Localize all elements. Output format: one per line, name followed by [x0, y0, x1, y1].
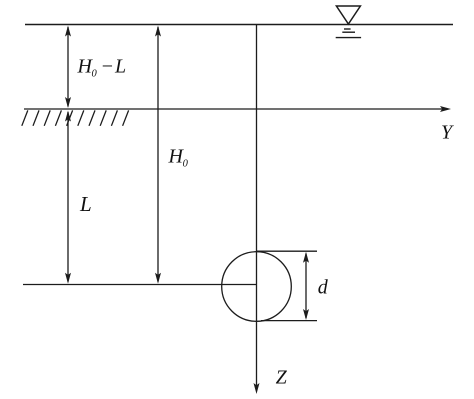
svg-text:0: 0	[183, 158, 189, 169]
svg-text:−: −	[101, 56, 115, 78]
svg-text:Y: Y	[441, 122, 454, 144]
svg-text:L: L	[79, 192, 92, 216]
svg-text:Z: Z	[276, 366, 288, 388]
svg-text:d: d	[318, 277, 329, 299]
svg-text:0: 0	[92, 69, 98, 80]
svg-text:L: L	[114, 56, 126, 78]
